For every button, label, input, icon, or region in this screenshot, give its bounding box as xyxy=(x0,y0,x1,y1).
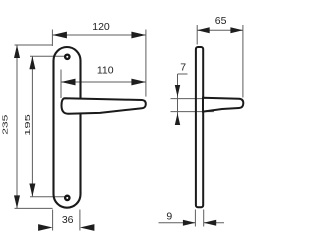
svg-text:120: 120 xyxy=(92,21,110,33)
svg-text:65: 65 xyxy=(215,15,227,27)
svg-text:235: 235 xyxy=(1,114,9,135)
svg-text:195: 195 xyxy=(23,114,32,136)
svg-text:7: 7 xyxy=(180,62,186,74)
svg-text:110: 110 xyxy=(97,65,114,77)
svg-text:36: 36 xyxy=(62,214,74,226)
svg-text:9: 9 xyxy=(166,210,172,222)
